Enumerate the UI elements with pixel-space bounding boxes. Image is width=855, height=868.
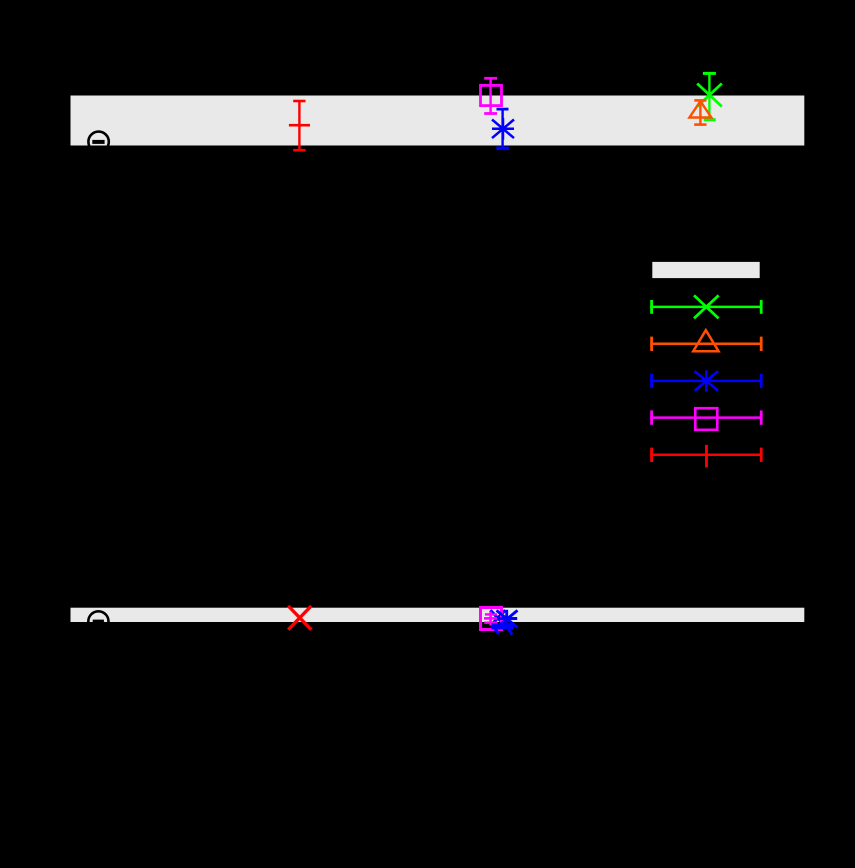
magenta square + plus bottom band	[481, 608, 502, 630]
magenta errorbar + square top panel	[481, 78, 502, 113]
legend orange row	[650, 330, 762, 351]
legend green row	[650, 295, 762, 318]
black circle marker top band	[88, 132, 108, 152]
red X bottom band	[288, 606, 311, 630]
blue X bottom band	[490, 610, 505, 626]
legend blue row	[650, 370, 762, 391]
black circle marker bottom band	[88, 611, 108, 631]
legend magenta row	[650, 408, 762, 430]
top gray band	[71, 96, 805, 146]
green errorbar + X top panel	[697, 73, 722, 119]
legend gray bar	[652, 262, 759, 278]
legend red row	[650, 445, 762, 468]
blue asterisk bottom band	[497, 610, 518, 629]
blue errorbar + asterisk top panel	[492, 109, 514, 148]
bottom gray band	[71, 608, 805, 622]
orange errorbar + triangle top panel	[689, 100, 711, 124]
blue bottom caps blob bottom band	[492, 623, 514, 634]
red errorbar top panel	[289, 101, 310, 150]
